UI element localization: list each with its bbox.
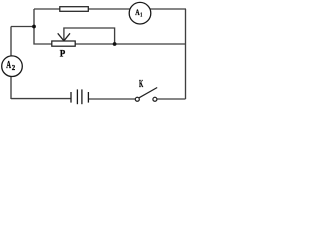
wire bottom right from corner to switch <box>157 98 186 100</box>
resistor R <box>60 7 89 12</box>
svg-text:K: K <box>139 79 143 90</box>
potentiometer wiper arrowhead <box>58 33 64 41</box>
battery plate short right <box>87 92 89 103</box>
battery plate tall inner-left <box>76 89 78 104</box>
svg-text:1: 1 <box>140 12 142 19</box>
node junction dot at wiper return <box>113 42 117 46</box>
svg-text:P: P <box>60 49 66 59</box>
ammeter A2 <box>2 56 23 77</box>
wire switch to battery <box>88 98 135 100</box>
svg-text:A: A <box>6 60 11 71</box>
switch K right terminal <box>153 97 157 101</box>
switch K left terminal <box>135 97 139 101</box>
svg-text:2: 2 <box>12 63 16 72</box>
ammeter A1 <box>129 2 151 24</box>
wire right edge vertical <box>185 9 187 99</box>
switch K lever <box>139 88 157 98</box>
wire top from corner to resistor <box>34 8 61 10</box>
wire resistor to ammeter A1 <box>88 8 130 10</box>
wire vertical from top corner through node to pot row <box>34 9 52 44</box>
wire pot output to right edge <box>75 43 185 45</box>
node junction dot at left tee <box>32 25 36 29</box>
wire battery to bottom-left corner <box>11 98 71 100</box>
wire wiper return up-right-down <box>64 28 115 44</box>
potentiometer P box <box>52 41 75 46</box>
battery plate tall inner-right <box>81 89 83 104</box>
wire left edge vertical through A2 <box>10 27 12 100</box>
battery plate short left <box>70 92 72 103</box>
wire A1 to top-right corner <box>150 8 186 10</box>
wire left horizontal to node <box>11 26 34 28</box>
